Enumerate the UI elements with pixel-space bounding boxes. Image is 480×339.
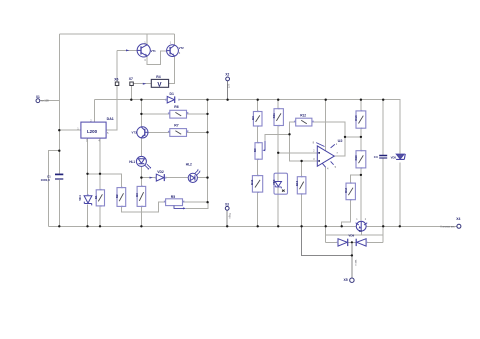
node R3 on bottom rail — [140, 225, 142, 227]
wire op-amp top power from rail — [325, 100, 327, 151]
svg-text:к акк.: к акк. — [354, 259, 357, 265]
node VD3 on bottom rail — [277, 225, 279, 227]
resistor R14 — [346, 183, 355, 200]
wire VD5 column lower — [399, 162, 401, 226]
node left branch junction — [58, 150, 60, 152]
svg-text:VT3: VT3 — [132, 130, 138, 134]
wire rail left segment — [94, 99, 166, 101]
wire L200 pin2 riser — [93, 100, 95, 122]
zener VD3 in box — [274, 173, 288, 194]
resistor R16 — [356, 151, 366, 168]
wire R5 right lead — [183, 201, 208, 203]
svg-text:X6: X6 — [114, 78, 118, 82]
wire R13 bottom to node — [360, 128, 362, 137]
wire R16 top lead — [360, 137, 362, 151]
resistor R10 — [252, 176, 262, 193]
wire VD4 below to bottom rail — [87, 205, 89, 227]
wire node down to op-amp inverting input — [290, 134, 318, 161]
resistor R6 — [170, 110, 187, 118]
terminal X4 — [457, 224, 461, 228]
node VD9 center tap — [351, 241, 353, 243]
svg-text:R13: R13 — [354, 115, 358, 121]
wire R8 to R9 — [257, 126, 259, 143]
capacitor C1 — [55, 174, 63, 179]
wire X6 pad down to L200 pin 5 (crosses rail) — [106, 86, 117, 131]
diode VD2 — [150, 174, 165, 181]
thyristor-block VS on rail — [356, 221, 368, 231]
node R5 right — [206, 201, 208, 203]
svg-text:U2: U2 — [338, 139, 343, 143]
svg-text:R14: R14 — [344, 187, 348, 193]
node R11-input tap — [277, 152, 279, 154]
wire top horizontal — [59, 33, 174, 35]
wire X2 down to rail — [227, 81, 229, 100]
node R7 right — [206, 131, 208, 133]
led HL1 — [136, 156, 151, 169]
node R13-R16 junction — [360, 136, 362, 138]
node pin4 y174 junction — [99, 173, 101, 175]
svg-text:1000,0: 1000,0 — [41, 178, 51, 182]
node VD4 on bottom rail — [86, 225, 88, 227]
svg-text:R6: R6 — [174, 105, 178, 109]
node HL2 right — [206, 176, 208, 178]
node R13 on rail — [360, 99, 362, 101]
diode VD9 left half — [338, 239, 348, 246]
wire VT3 base to R7 — [148, 131, 170, 133]
wire node column x207 — [207, 100, 209, 203]
wire rail right of D1 to right end corner, down through VD5 column — [179, 100, 400, 154]
svg-text:R4: R4 — [156, 75, 160, 79]
wire VT2 collector lead — [173, 34, 175, 45]
zener VD5 — [396, 154, 405, 160]
led HL2 — [188, 169, 200, 183]
arrow on X7 voltmeter wire — [143, 83, 146, 85]
node R10 on bottom rail — [257, 225, 259, 227]
wire VT1 collector lead — [146, 34, 148, 44]
svg-text:R1: R1 — [94, 195, 98, 199]
node x207 on rail — [206, 99, 208, 101]
wire loop left corner vertical — [325, 226, 327, 242]
arrow on VT1 base wire — [126, 49, 129, 51]
wire VD9 left lead — [326, 241, 338, 243]
wire L200 pin1 — [59, 129, 81, 131]
svg-text:R3: R3 — [135, 193, 139, 197]
node VT3 column on rail — [140, 99, 142, 101]
wire HL1 to node — [140, 166, 142, 186]
node R15 tap on inverting wire — [300, 160, 302, 162]
node HL1-VD2-R3 — [140, 176, 142, 178]
pin ticks R12 — [294, 121, 314, 122]
wire VT2 emitter down to voltmeter — [169, 56, 175, 83]
svg-text:общ.: общ. — [229, 213, 232, 219]
svg-text:X7: X7 — [129, 77, 133, 81]
pin ticks R16 — [361, 150, 362, 169]
svg-text:R16: R16 — [354, 155, 358, 161]
svg-text:VD9: VD9 — [348, 234, 354, 238]
pin ticks R10 — [258, 175, 259, 193]
wire branch to bottom rail left corner — [48, 151, 59, 227]
wire R2 bottom to R5 left — [121, 202, 165, 212]
wire X6 column upper (pad to VT1 base) — [116, 50, 118, 82]
wire X3 down to rail — [226, 210, 228, 226]
wire R12 right lead to output node — [312, 122, 345, 137]
wire left input vertical lower (below C1) — [58, 180, 60, 226]
svg-text:VD2: VD2 — [157, 170, 164, 174]
svg-text:C3: C3 — [374, 155, 378, 159]
wire R1 bottom to rail — [99, 206, 101, 226]
svg-text:R2: R2 — [115, 194, 119, 198]
pad X7 — [130, 82, 134, 86]
svg-text:R10: R10 — [250, 179, 254, 185]
wire R14 bottom jog to rail — [342, 200, 351, 227]
resistor R15 — [297, 177, 306, 194]
svg-text:R7: R7 — [174, 123, 178, 127]
svg-text:12В: 12В — [227, 83, 230, 88]
svg-text:X2: X2 — [225, 72, 229, 76]
wire node y174 horizontal to R2 — [88, 174, 122, 188]
node R15 on bottom rail — [300, 225, 302, 227]
wire VS blob bottom to loop top — [360, 231, 362, 235]
wire L200 pin3 column — [87, 138, 89, 195]
zener VD4 — [84, 196, 92, 206]
resistor R13 — [356, 111, 366, 128]
svg-text:VT1: VT1 — [151, 49, 157, 53]
pin ticks R1 — [100, 189, 101, 207]
node C3 on rail — [382, 99, 384, 101]
node X7 on rail — [130, 99, 132, 101]
node C1 column on bottom rail — [58, 225, 60, 227]
transistor VT3 — [137, 127, 148, 138]
wire R8 top lead — [257, 100, 259, 112]
wire C3 column upper — [382, 100, 384, 155]
pin ticks D1 — [165, 99, 179, 100]
wire R9 to R10 — [257, 159, 259, 175]
wire bottom rail — [48, 225, 457, 227]
resistor R9 potentiometer — [255, 141, 265, 160]
svg-text:VD4: VD4 — [78, 195, 82, 201]
wire X7 to voltmeter — [133, 83, 151, 85]
svg-text:X5: X5 — [344, 278, 348, 282]
svg-text:HL1: HL1 — [129, 160, 135, 164]
wire VD9 right lead — [366, 241, 383, 243]
resistor R3 — [137, 186, 146, 206]
node R9 wiper R12 junction — [288, 133, 290, 135]
node pin3 y174 junction — [86, 173, 88, 175]
pin ticks R5 — [164, 201, 184, 202]
wire R16 bottom down to VS blob — [360, 168, 362, 220]
svg-text:X1: X1 — [36, 95, 40, 99]
svg-text:вх.12В: вх.12В — [41, 99, 49, 102]
resistor R12 — [296, 118, 312, 126]
wire R6 left lead — [141, 113, 169, 115]
node X2 on rail — [226, 99, 228, 101]
node VD5 on bottom rail — [399, 225, 401, 227]
pin ticks VD2 — [155, 177, 167, 178]
wire loop top horizontal — [326, 234, 384, 236]
wire R12 left lead down to node — [290, 122, 296, 134]
wire R5 wiper return — [186, 202, 208, 208]
node op-amp power on bottom rail — [325, 225, 327, 227]
node R14 tap — [360, 174, 362, 176]
wire VT1 emitter step to VT2 base — [147, 51, 167, 65]
resistor R1 — [96, 190, 104, 206]
svg-text:VT2: VT2 — [179, 46, 185, 50]
wire C3 column lower — [382, 159, 384, 227]
wire op-amp output — [334, 137, 345, 156]
wire R15 column to X5 net — [302, 226, 352, 255]
wire op-amp bottom power to rail — [325, 167, 327, 226]
svg-text:R8: R8 — [251, 116, 255, 120]
terminal X2 — [226, 77, 230, 81]
svg-text:R9: R9 — [253, 148, 257, 152]
diode VD9 right half — [356, 239, 366, 246]
node C3 on bottom rail — [382, 225, 384, 227]
svg-text:D1: D1 — [170, 92, 174, 96]
resistor R7 — [170, 129, 187, 137]
wire loop right corner vertical — [382, 226, 384, 242]
svg-text:VD3: VD3 — [272, 179, 276, 185]
voltmeter R4 box — [151, 79, 168, 87]
pin ticks R3 — [141, 186, 142, 207]
wire X7 down to rail — [130, 86, 132, 100]
svg-text:R11: R11 — [272, 113, 276, 118]
svg-text:X4: X4 — [456, 217, 460, 221]
pin ticks R7 — [168, 131, 188, 133]
resistor R8 — [253, 112, 262, 127]
wire op-amp non-inverting input — [278, 152, 317, 154]
wire HL2 right lead — [197, 177, 207, 179]
wire R15 top lead — [301, 161, 303, 177]
svg-text:X3: X3 — [225, 202, 229, 206]
wire R11 bottom through VD3 box — [277, 126, 279, 182]
wire output node to R13 column — [345, 136, 361, 138]
svg-text:R5: R5 — [171, 195, 175, 199]
wire R7 right lead — [187, 131, 208, 133]
IC DA1 L200 box — [81, 122, 106, 138]
resistor R11 — [274, 109, 283, 126]
node X3 on bottom rail — [226, 225, 228, 227]
wire center tap down to X5 — [351, 242, 353, 278]
node op-amp power on rail — [325, 99, 327, 101]
svg-text:R15: R15 — [295, 180, 299, 186]
wire VD9 center junction — [348, 241, 356, 243]
wire VD2 left lead — [141, 177, 155, 179]
pin ticks R15 — [301, 176, 302, 195]
node R6 right — [206, 113, 208, 115]
terminal X5 — [350, 278, 354, 282]
svg-text:DA1: DA1 — [107, 117, 114, 121]
terminal X3 — [225, 206, 229, 210]
pin ticks R13 — [361, 110, 362, 129]
node R8 on rail — [257, 99, 259, 101]
node R11 on rail — [277, 99, 279, 101]
pin ticks R8 — [258, 111, 259, 127]
wire R10 bottom to rail — [257, 192, 259, 226]
node X5 net junction — [351, 254, 353, 256]
svg-text:Клемма акк.: Клемма акк. — [441, 224, 456, 228]
wire left input vertical upper — [58, 34, 60, 174]
node R6 tap — [140, 113, 142, 115]
svg-text:VD5: VD5 — [391, 156, 397, 160]
wire R14 top lead — [351, 175, 361, 183]
pin ticks R2 — [121, 187, 122, 207]
node L200 pin1 junction — [58, 129, 60, 131]
svg-text:L200: L200 — [87, 129, 98, 134]
wire R13 top lead — [360, 100, 362, 111]
capacitor C3 — [379, 156, 387, 159]
wire VD2 to HL2 — [166, 177, 189, 179]
pin ticks R11 — [278, 108, 279, 126]
wire R6 right lead — [187, 113, 208, 115]
pin ticks R9 — [258, 142, 259, 160]
wire R15 bottom to rail — [301, 194, 303, 226]
svg-text:HL2: HL2 — [186, 162, 192, 166]
pin ticks R14 — [350, 182, 351, 200]
wire VT1 base from X6 column — [117, 49, 137, 51]
svg-text:R12: R12 — [300, 114, 306, 118]
pin ticks VD9 — [337, 242, 368, 243]
resistor R2 — [117, 188, 126, 207]
wire R9 wiper to node — [265, 134, 290, 140]
wire L200 pin4 column to R1 — [99, 138, 101, 190]
wire VT3 emitter to HL1 — [140, 138, 142, 157]
diode D1 — [167, 96, 175, 103]
wire VT3 column from rail — [140, 100, 142, 127]
resistor R5 potentiometer — [166, 199, 187, 210]
pad X6 — [115, 82, 119, 86]
wire R3 bottom to rail — [140, 206, 142, 226]
pin ticks VD4 — [87, 194, 88, 195]
op-amp U2 — [316, 143, 335, 168]
node R1 on bottom rail — [99, 225, 101, 227]
transistor VT1 — [137, 44, 150, 57]
pin ticks R6 — [168, 112, 188, 114]
node output junction — [344, 136, 346, 138]
terminal X1 — [36, 99, 40, 103]
node R14 on bottom rail — [341, 225, 343, 227]
transistor VT2 — [167, 45, 179, 57]
wire VD3 bottom to rail — [277, 187, 279, 226]
wire X1 stub — [40, 100, 59, 102]
wire R11 top lead — [277, 100, 279, 109]
